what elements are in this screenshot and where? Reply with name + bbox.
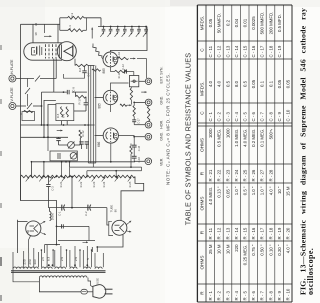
svg-text:C - 10: C - 10 [286, 109, 291, 121]
svg-text:0.04: 0.04 [234, 18, 239, 27]
svg-text:50 MMFD.: 50 MMFD. [217, 13, 222, 33]
svg-text:R - 21: R - 21 [208, 169, 213, 181]
svg-text:0.05: 0.05 [251, 79, 256, 88]
svg-text:2.5: 2.5 [74, 257, 78, 262]
svg-text:250: 250 [22, 259, 26, 265]
svg-text:C - 11: C - 11 [208, 45, 213, 57]
AC plug [93, 285, 106, 299]
svg-text:4.0: 4.0 [208, 80, 213, 87]
svg-text:4.0 “: 4.0 “ [286, 244, 291, 253]
svg-text:1.0 MEG.: 1.0 MEG. [234, 129, 239, 147]
svg-text:R-10: R-10 [117, 51, 121, 57]
arrow to CRT grid [44, 24, 46, 33]
svg-text:oscilloscope.: oscilloscope. [306, 248, 315, 295]
svg-text:R - 8: R - 8 [268, 291, 273, 301]
rectifier tube 80 [26, 221, 41, 236]
primary circuit wiring [39, 278, 81, 292]
resistor chain R-21..R-25 [21, 175, 136, 178]
svg-text:C - 4: C - 4 [234, 112, 239, 122]
svg-text:R - 3: R - 3 [225, 291, 230, 301]
svg-text:1000: 1000 [225, 128, 230, 138]
capacitor C-9 in line [66, 90, 68, 94]
wire: capacitor selector bus [98, 26, 147, 28]
bus y=125 [21, 124, 95, 126]
svg-text:C - 8: C - 8 [268, 112, 273, 122]
vertical resistor below box [130, 87, 132, 88]
svg-text:R-5: R-5 [56, 113, 60, 118]
svg-text:1.0 “: 1.0 “ [251, 186, 256, 195]
svg-text:R-17: R-17 [78, 98, 82, 105]
svg-text:0.0025: 0.0025 [251, 16, 256, 30]
bus y=137.3 [21, 136, 69, 138]
svg-text:34: 34 [34, 23, 38, 27]
wire y=170.8 [87, 170, 142, 172]
capacitor C-7 [84, 66, 86, 71]
svg-text:R - 22: R - 22 [217, 169, 222, 181]
wire y=226.4 with cap [57, 225, 90, 227]
svg-text:C - 19: C - 19 [277, 45, 282, 57]
wire into 80 tube [107, 208, 109, 225]
svg-text:C - 16: C - 16 [251, 45, 256, 57]
wire y=240.5 [58, 240, 95, 242]
transformer T1 secondary windings [13, 267, 38, 269]
svg-text:H-PLATE: H-PLATE [10, 59, 14, 74]
svg-text:C - 17: C - 17 [260, 45, 265, 57]
svg-text:4.0 “: 4.0 “ [268, 186, 273, 195]
plate lead arrows [127, 221, 132, 225]
svg-text:R - 5: R - 5 [243, 291, 248, 301]
svg-text:0.5: 0.5 [225, 80, 230, 87]
svg-text:6.3: 6.3 [47, 257, 51, 262]
svg-text:500∿: 500∿ [268, 129, 273, 140]
svg-text:C-2: C-2 [84, 211, 88, 216]
potentiometer P1 [68, 142, 75, 149]
svg-text:GND.: GND. [159, 132, 163, 141]
plate resistor and pointer [118, 57, 129, 59]
svg-text:R - 2: R - 2 [217, 291, 222, 301]
resistor R-4 second loop [60, 29, 68, 31]
svg-text:MFDS.: MFDS. [199, 81, 204, 96]
svg-text:R - 16: R - 16 [251, 227, 256, 239]
terminal HOR [145, 121, 152, 128]
tube 885 (sweep osc) [103, 90, 117, 104]
svg-text:C-15: C-15 [138, 145, 141, 151]
wire: top feed [21, 23, 60, 25]
svg-text:0.1 MEG.: 0.1 MEG. [260, 129, 265, 147]
svg-text:R-25: R-25 [128, 181, 132, 187]
svg-text:R-12: R-12 [81, 130, 85, 137]
svg-text:C - 12: C - 12 [217, 45, 222, 57]
box with potentiometer P2 [50, 151, 77, 161]
verticals to buses [41, 92, 43, 125]
svg-text:EXT. SYN.: EXT. SYN. [159, 67, 163, 84]
capacitor C-1 [61, 205, 63, 211]
wire V-plate with switch [16, 105, 26, 107]
leads [18, 221, 28, 223]
svg-text:C - 13: C - 13 [225, 45, 230, 57]
resistor near VER [130, 144, 132, 147]
transformer core [11, 270, 106, 272]
svg-text:R - 1: R - 1 [208, 291, 213, 301]
output caps to VER [118, 135, 134, 137]
CRT electron gun internals [32, 48, 37, 56]
svg-text:25 M: 25 M [208, 244, 213, 254]
svg-text:C - 1: C - 1 [208, 112, 213, 122]
chain feed drops [61, 162, 63, 177]
svg-text:0.5 “: 0.5 “ [243, 186, 248, 195]
terminal H-PLATE [9, 75, 16, 82]
CRT cathode-ray tube body [24, 43, 62, 60]
svg-text:0.25 MEG.: 0.25 MEG. [243, 245, 248, 266]
svg-text:R - 10: R - 10 [286, 288, 291, 300]
svg-text:80: 80 [26, 230, 30, 234]
svg-text:R-6: R-6 [62, 113, 66, 118]
small zigzag + arrow [120, 104, 127, 106]
svg-text:R - 14: R - 14 [234, 227, 239, 239]
resistor R-12 vertical [79, 130, 82, 138]
winding leads [12, 252, 14, 267]
svg-text:666: 666 [97, 141, 101, 147]
switch between plate lines [27, 79, 29, 88]
svg-text:405: 405 [33, 259, 37, 265]
coupling from CRT [74, 59, 76, 66]
svg-text:R - 9: R - 9 [277, 291, 282, 301]
svg-text:C - 3: C - 3 [225, 112, 230, 122]
svg-text:C-12: C-12 [121, 64, 125, 70]
svg-text:R - 25: R - 25 [243, 169, 248, 181]
capacitor C-5 [58, 137, 60, 138]
fuse [81, 289, 87, 294]
svg-text:GND.: GND. [159, 96, 163, 105]
svg-text:20000: 20000 [51, 212, 55, 220]
svg-text:0.05: 0.05 [277, 79, 282, 88]
svg-text:R - 27: R - 27 [260, 169, 265, 181]
svg-text:R-4: R-4 [68, 25, 72, 30]
svg-text:200 MMFD.: 200 MMFD. [268, 12, 273, 35]
svg-text:0.75 “: 0.75 “ [251, 244, 256, 256]
wires from V-plate area into box [44, 100, 56, 137]
svg-text:4.0 MEG.: 4.0 MEG. [243, 129, 248, 147]
svg-text:0.5 MFD.: 0.5 MFD. [277, 14, 282, 32]
CRT beam triangle [64, 46, 73, 56]
divider box with R-5 R-6 [56, 104, 74, 121]
terminal EXT SYN [145, 78, 151, 84]
svg-text:220: 220 [234, 244, 239, 252]
svg-text:885: 885 [102, 68, 106, 74]
svg-text:0.20 “: 0.20 “ [277, 244, 282, 256]
svg-text:0.13 “: 0.13 “ [217, 186, 222, 198]
cap on tap [47, 177, 49, 185]
wire y=162 [32, 161, 135, 163]
svg-text:R - 18: R - 18 [268, 227, 273, 239]
terminal GND 1 [145, 99, 152, 106]
svg-text:R-23: R-23 [92, 181, 96, 187]
cap C-12 [124, 69, 126, 73]
svg-text:OHMS: OHMS [199, 138, 204, 152]
svg-text:0.2: 0.2 [225, 19, 230, 26]
svg-text:4.0 MEG.: 4.0 MEG. [208, 187, 213, 205]
svg-text:R - 24: R - 24 [234, 169, 239, 181]
svg-text:TABLE OF SYMBOLS AND RESISTANC: TABLE OF SYMBOLS AND RESISTANCE VALUES [183, 53, 192, 226]
svg-text:R-8: R-8 [78, 67, 82, 72]
svg-text:R - 12: R - 12 [217, 227, 222, 239]
svg-text:2.5: 2.5 [60, 257, 64, 262]
svg-text:R - 11: R - 11 [208, 227, 213, 239]
filter choke 20000 [49, 208, 51, 212]
potentiometer arrow (vertical) [91, 28, 93, 39]
chain end step to rectifier [121, 177, 144, 221]
svg-text:OHMS: OHMS [199, 255, 204, 269]
wire y=167 [70, 166, 142, 168]
taps up from chain [71, 177, 73, 208]
svg-text:R - 28: R - 28 [268, 169, 273, 181]
wire H-plate with switch [16, 78, 34, 80]
svg-text:10 M: 10 M [217, 244, 222, 254]
svg-text:8.0: 8.0 [234, 80, 239, 87]
wire: left border bus [21, 24, 57, 244]
CRT bottom leads [53, 59, 55, 93]
svg-text:R - 15: R - 15 [243, 227, 248, 239]
svg-text:C-3: C-3 [51, 186, 55, 191]
resistor between GND and HOR [147, 106, 149, 121]
svg-text:R-3: R-3 [70, 12, 74, 17]
CRT leads to top line [32, 24, 34, 42]
wire y=244.6 [45, 244, 61, 246]
svg-text:VER.: VER. [159, 158, 163, 166]
svg-text:R-11: R-11 [117, 72, 121, 78]
wire: drop from R-3 to cap bus [100, 18, 102, 27]
svg-text:80: 80 [113, 209, 117, 213]
capacitor to box [85, 97, 87, 103]
svg-text:R - 19: R - 19 [277, 227, 282, 239]
caps C-6 C-7 [79, 141, 83, 143]
scan artifact marks [0, 45, 2, 50]
svg-text:C - 6: C - 6 [251, 112, 256, 122]
svg-text:500 MMFD.: 500 MMFD. [260, 12, 265, 35]
svg-text:C-9: C-9 [72, 87, 76, 92]
resistor R-3 top loop [59, 18, 61, 31]
tube 885 (sync amp) [103, 52, 118, 67]
svg-text:0.01: 0.01 [243, 18, 248, 27]
svg-text:C - 14: C - 14 [234, 45, 239, 57]
wire: bias line y=92 [42, 91, 67, 93]
svg-text:R-21: R-21 [59, 181, 63, 187]
pot R + series cap to HOR [133, 102, 135, 105]
svg-text:MFDS.: MFDS. [199, 16, 204, 31]
svg-text:0.5 MEG.: 0.5 MEG. [217, 129, 222, 147]
svg-text:C - 2: C - 2 [217, 112, 222, 122]
svg-text:V-PLATE: V-PLATE [10, 87, 14, 102]
terminal VER [145, 158, 152, 165]
svg-text:R - 20: R - 20 [286, 227, 291, 239]
svg-text:C - 15: C - 15 [243, 45, 248, 57]
svg-text:0.50 “: 0.50 “ [260, 244, 265, 256]
svg-text:1.0 “: 1.0 “ [260, 186, 265, 195]
svg-text:0.2 MEG.: 0.2 MEG. [251, 129, 256, 147]
svg-text:10 “: 10 “ [277, 186, 282, 194]
CRT screen circle [57, 42, 76, 61]
svg-text:NOTE: C₃ AND C₄= 8 MFD. FOR 25: NOTE: C₃ AND C₄= 8 MFD. FOR 25 CYCLES. [166, 73, 171, 185]
svg-text:5: 5 [86, 258, 90, 260]
svg-text:885: 885 [97, 103, 101, 109]
svg-text:C-17: C-17 [138, 118, 141, 124]
tube 666 (vert amp) [103, 128, 118, 143]
svg-text:4.0: 4.0 [217, 80, 222, 87]
filament return [97, 235, 123, 247]
tube stubs [109, 67, 111, 72]
svg-text:0.5: 0.5 [243, 80, 248, 87]
svg-text:R - 23: R - 23 [225, 169, 230, 181]
svg-text:R-24: R-24 [102, 181, 106, 187]
svg-text:250: 250 [28, 259, 32, 265]
svg-text:R - 4: R - 4 [234, 291, 239, 301]
CRT deflection plates [58, 45, 60, 59]
capacitor bank C-11..C-17 [103, 26, 105, 28]
svg-text:C - 5: C - 5 [243, 112, 248, 122]
terminal V-PLATE [9, 103, 16, 110]
small network box left [22, 112, 35, 121]
svg-text:1.0 “: 1.0 “ [234, 186, 239, 195]
svg-text:0.1: 0.1 [268, 80, 273, 87]
svg-text:15 M: 15 M [286, 186, 291, 196]
terminal GND 2 [145, 133, 152, 140]
svg-text:0.1: 0.1 [260, 80, 265, 87]
svg-text:0.10 “: 0.10 “ [268, 244, 273, 256]
svg-text:OHMS: OHMS [199, 196, 204, 210]
svg-text:38: 38 [34, 32, 38, 36]
table grid [196, 5, 198, 302]
rectifier tube 80 TUBE [112, 220, 127, 235]
svg-text:0.05: 0.05 [286, 79, 291, 88]
svg-text:R - 6: R - 6 [251, 291, 256, 301]
svg-text:R - 26: R - 26 [251, 169, 256, 181]
arrow contact [57, 130, 63, 132]
svg-text:C - 7: C - 7 [260, 112, 265, 122]
central supply bus [87, 66, 89, 164]
primary winding [39, 276, 87, 278]
svg-text:C - 9: C - 9 [277, 112, 282, 122]
svg-text:R - 13: R - 13 [225, 227, 230, 239]
svg-text:0.05 “: 0.05 “ [225, 186, 230, 198]
svg-text:1000: 1000 [208, 128, 213, 138]
svg-text:R - 7: R - 7 [260, 291, 265, 301]
svg-text:C-1: C-1 [58, 211, 62, 216]
wire: B+ line y=207.6 [48, 207, 107, 209]
grid resistor row2 [115, 70, 128, 72]
svg-text:10 M: 10 M [225, 244, 230, 254]
sync selector jack box [129, 76, 138, 87]
svg-text:HOR.: HOR. [159, 120, 163, 129]
diagonal grid resistor [92, 44, 94, 46]
resistor R-17 [75, 92, 77, 97]
svg-text:C - 18: C - 18 [268, 45, 273, 57]
grid leak R-9 [92, 69, 101, 71]
capacitor C-2 [87, 205, 89, 211]
svg-text:R - 17: R - 17 [260, 227, 265, 239]
svg-text:2.5: 2.5 [41, 257, 45, 261]
wire: bus right end down to 885 grid cap [110, 27, 147, 53]
svg-text:0.05: 0.05 [208, 18, 213, 27]
svg-text:R-22: R-22 [79, 181, 83, 187]
